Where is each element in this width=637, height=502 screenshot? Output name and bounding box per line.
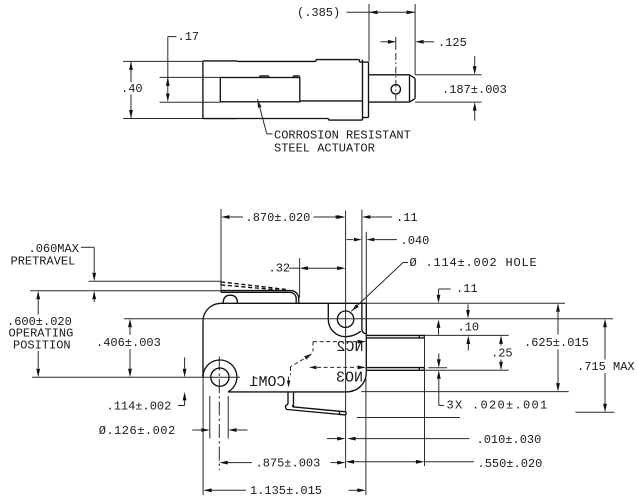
svg-text:.125: .125 [438,36,467,50]
svg-text:.010±.030: .010±.030 [477,433,542,447]
svg-text:COM1: COM1 [249,374,285,391]
svg-text:.625±.015: .625±.015 [524,336,589,350]
svg-text:STEEL ACTUATOR: STEEL ACTUATOR [274,141,375,155]
svg-text:.040: .040 [401,234,430,248]
svg-text:.17: .17 [178,30,200,44]
svg-text:.187±.003: .187±.003 [442,83,507,97]
svg-text:CORROSION RESISTANT: CORROSION RESISTANT [274,128,411,142]
svg-text:.870±.020: .870±.020 [246,211,311,225]
svg-text:.406±.003: .406±.003 [96,336,161,350]
svg-text:(.385): (.385) [297,6,340,20]
svg-text:1.135±.015: 1.135±.015 [250,484,322,498]
svg-text:Ø.126±.002: Ø.126±.002 [99,424,176,438]
svg-text:.25: .25 [491,346,513,360]
svg-text:.875±.003: .875±.003 [256,456,321,470]
svg-text:3X .020±.001: 3X .020±.001 [447,399,549,413]
svg-text:.11: .11 [396,211,418,225]
svg-text:.32: .32 [269,262,291,276]
svg-text:.114±.002: .114±.002 [107,399,172,413]
svg-text:.10: .10 [458,320,480,334]
svg-text:NO3: NO3 [336,369,363,386]
svg-text:Ø .114±.002 HOLE: Ø .114±.002 HOLE [410,256,538,270]
svg-text:.11: .11 [456,282,478,296]
svg-text:.715 MAX: .715 MAX [577,360,635,374]
svg-text:POSITION: POSITION [13,338,71,352]
svg-text:PRETRAVEL: PRETRAVEL [11,255,76,269]
svg-text:.40: .40 [121,82,143,96]
svg-text:.550±.020: .550±.020 [478,457,543,471]
